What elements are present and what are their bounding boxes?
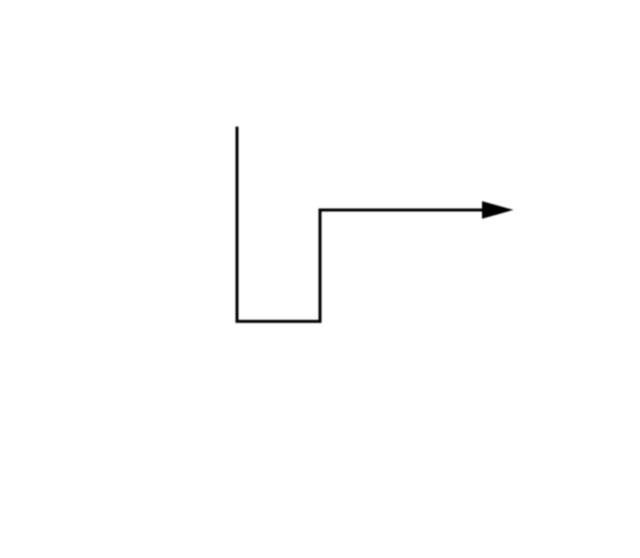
arrowhead [482, 201, 514, 219]
wire [237, 127, 505, 322]
